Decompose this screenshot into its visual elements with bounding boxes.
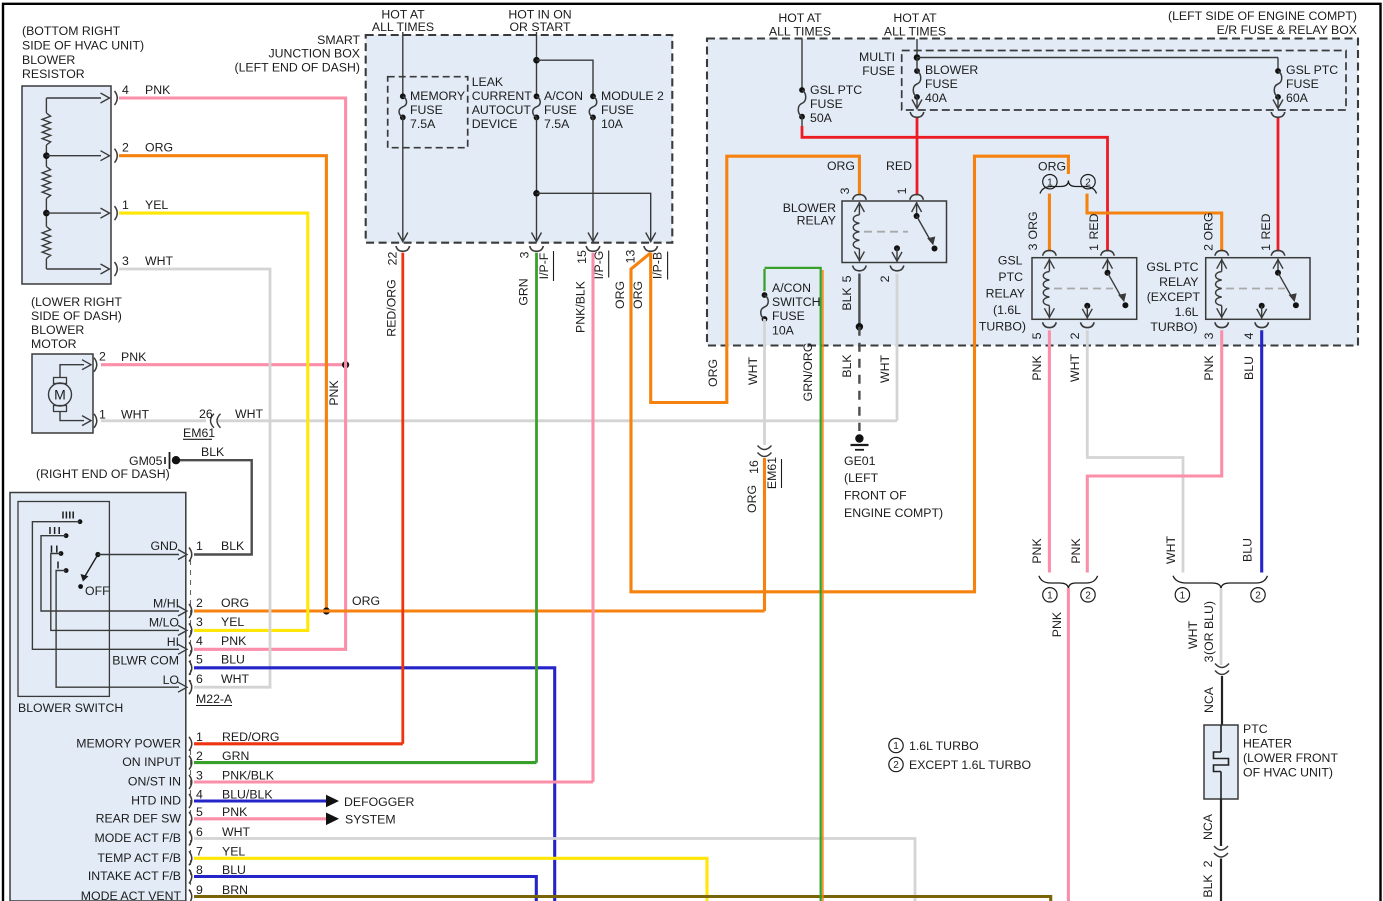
svg-text:HTD IND: HTD IND: [131, 794, 181, 808]
svg-text:1: 1: [196, 730, 203, 744]
svg-text:3: 3: [518, 251, 532, 258]
leak current autocut device box: [388, 77, 468, 148]
svg-text:1: 1: [122, 198, 129, 212]
svg-text:PNK: PNK: [1030, 355, 1044, 381]
svg-text:HI: HI: [167, 635, 179, 649]
svg-text:7.5A: 7.5A: [410, 117, 436, 131]
svg-text:2: 2: [1255, 590, 1261, 601]
svg-text:FUSE: FUSE: [862, 64, 895, 78]
svg-text:6: 6: [196, 825, 203, 839]
org split brace: [1040, 181, 1097, 194]
switch contact IIII: [78, 519, 83, 524]
wire switch I to LO pin: [56, 571, 187, 693]
svg-text:ALL TIMES: ALL TIMES: [769, 25, 831, 39]
relay gsl ptc turbo box: [1032, 258, 1137, 320]
svg-text:BLU: BLU: [221, 653, 245, 667]
svg-text:GRN/ORG: GRN/ORG: [801, 343, 815, 402]
fuse A/CON SWITCH FUSE 10A: [761, 281, 821, 338]
switch pin 7 TEMP ACT F/B: [97, 845, 245, 866]
switch pin 1 MEMORY POWER: [76, 730, 279, 751]
wire blower fuse to exit: [912, 58, 922, 109]
svg-text:FRONT OF: FRONT OF: [844, 489, 907, 503]
svg-text:MULTI: MULTI: [859, 50, 895, 64]
wire acon fuse to exit IPF: [532, 117, 542, 241]
wire PNK motor pin2 to node A: [101, 363, 346, 366]
legend variant 2: [889, 757, 1031, 772]
relay1 coil: [1043, 259, 1054, 319]
svg-text:I/P-B: I/P-B: [651, 252, 665, 279]
svg-text:13: 13: [623, 250, 637, 264]
blower switch inner box: [18, 502, 109, 697]
svg-text:16: 16: [747, 460, 761, 474]
relay blower coil: [853, 202, 864, 262]
label ORG a: [613, 281, 627, 309]
svg-text:BLK: BLK: [840, 354, 854, 378]
svg-text:PNK: PNK: [222, 805, 248, 819]
variant circle 1 pnk: [1043, 588, 1057, 602]
wire ORG sjb IPB branch A: [631, 156, 1068, 592]
wire PNK relay2 pin3 down: [1087, 330, 1221, 572]
svg-text:60A: 60A: [1286, 91, 1309, 105]
wht blu merge brace: [1173, 576, 1267, 589]
svg-text:2: 2: [1068, 332, 1082, 339]
connector dash line lower: [190, 750, 192, 892]
svg-text:DEFOGGER: DEFOGGER: [344, 795, 414, 809]
svg-text:ALL TIMES: ALL TIMES: [884, 25, 946, 39]
svg-text:1: 1: [1087, 244, 1101, 251]
svg-text:3: 3: [1026, 243, 1040, 250]
wire WHT motor pin1 to connector 26: [101, 419, 206, 422]
svg-text:2: 2: [878, 275, 892, 282]
relay blower box: [842, 201, 947, 263]
label hot in on or start: [508, 8, 571, 35]
ground GE01 symbol: [851, 434, 869, 450]
svg-text:1: 1: [1259, 244, 1273, 251]
node resistor tap upper: [43, 152, 50, 159]
svg-text:BLK: BLK: [1201, 874, 1215, 898]
svg-text:BLU: BLU: [222, 863, 246, 877]
blower switch box: [10, 493, 186, 901]
motor M1 symbol: [49, 360, 92, 426]
relay2 pin4 contact: [1257, 303, 1267, 319]
svg-text:BLOWER SWITCH: BLOWER SWITCH: [18, 701, 123, 715]
label WHT pair: [1164, 536, 1178, 564]
svg-text:WHT: WHT: [746, 357, 760, 385]
label hot at all times left: [769, 11, 831, 39]
svg-text:1: 1: [1180, 590, 1186, 601]
svg-text:5: 5: [1030, 332, 1044, 339]
switch common contact: [95, 552, 100, 557]
svg-text:4: 4: [196, 787, 203, 801]
svg-text:40A: 40A: [925, 91, 948, 105]
svg-text:BLOWER: BLOWER: [925, 63, 978, 77]
resistor R element chain: [42, 98, 50, 269]
smart junction box: [366, 35, 673, 243]
svg-text:PNK: PNK: [1202, 355, 1216, 381]
relay2 coil: [1216, 259, 1227, 319]
svg-text:ON INPUT: ON INPUT: [122, 755, 181, 769]
svg-text:15: 15: [575, 250, 589, 264]
svg-text:4: 4: [196, 634, 203, 648]
switch pin 1 GND: [150, 539, 245, 562]
svg-text:SYSTEM: SYSTEM: [345, 812, 396, 826]
wire ORG connector16 to MHI row: [745, 458, 765, 611]
svg-text:LEAK: LEAK: [472, 75, 504, 89]
switch pin 9 MODE ACT VENT: [81, 883, 248, 901]
connector 3 ptc: [1202, 655, 1229, 674]
variant circle 1 left: [1043, 175, 1057, 189]
label ptc heater: [1243, 722, 1338, 780]
pnk merge brace: [1039, 576, 1098, 589]
svg-text:MODULE 2: MODULE 2: [601, 89, 664, 103]
svg-text:CURRENT: CURRENT: [472, 89, 533, 103]
label GRN/ORG: [801, 343, 815, 402]
wire switch III to M/HI pin: [41, 536, 187, 616]
wire memory fuse to exit 22: [398, 117, 408, 241]
wire WHT relay pin2 down: [878, 274, 897, 421]
svg-text:1: 1: [99, 407, 106, 421]
svg-text:SMART: SMART: [317, 33, 360, 47]
svg-text:3: 3: [838, 187, 852, 194]
switch pin 3 ON/ST IN: [128, 768, 275, 789]
svg-text:ORG: ORG: [613, 281, 627, 309]
svg-text:WHT: WHT: [221, 672, 249, 686]
node multi fuse feed: [914, 54, 921, 61]
label ORG branch B: [706, 359, 720, 387]
switch pin 6 LO: [163, 672, 250, 694]
svg-text:2: 2: [196, 596, 203, 610]
svg-text:BLK: BLK: [201, 445, 225, 459]
label ORG relay1 pin3: [1026, 211, 1040, 250]
svg-text:4: 4: [1242, 332, 1256, 339]
svg-text:WHT: WHT: [1068, 354, 1082, 382]
svg-text:5: 5: [840, 275, 854, 282]
svg-text:WHT: WHT: [235, 407, 263, 421]
svg-text:2: 2: [196, 749, 203, 763]
svg-text:TEMP ACT F/B: TEMP ACT F/B: [97, 851, 181, 865]
blower motor box: [32, 354, 93, 433]
svg-text:FUSE: FUSE: [1286, 77, 1319, 91]
blower resistor box: [22, 86, 111, 284]
wire WHT merged down: [1186, 588, 1221, 665]
wire PNK relay1 pin5 down: [1030, 330, 1049, 572]
svg-text:1.6L: 1.6L: [1175, 305, 1199, 319]
multi fuse exit connector a: [910, 112, 924, 117]
svg-text:2: 2: [1085, 590, 1091, 601]
svg-text:PNK: PNK: [1069, 538, 1083, 564]
svg-text:HOT AT: HOT AT: [778, 11, 822, 25]
svg-text:DEVICE: DEVICE: [472, 117, 518, 131]
svg-text:INTAKE ACT F/B: INTAKE ACT F/B: [88, 869, 181, 883]
svg-text:1: 1: [893, 741, 899, 752]
svg-text:BLK: BLK: [221, 539, 245, 553]
relay blower cup pin5: [840, 266, 866, 283]
relay2 cup pin3: [1202, 322, 1229, 339]
wire hot-in-on into box: [536, 32, 538, 96]
svg-text:GSL PTC: GSL PTC: [1286, 63, 1338, 77]
svg-text:(LEFT SIDE OF ENGINE COMPT): (LEFT SIDE OF ENGINE COMPT): [1168, 9, 1357, 23]
ER fuse and relay box: [707, 39, 1358, 346]
fuse GSL PTC FUSE 60A: [1274, 58, 1338, 106]
resistor pin 4: [46, 83, 171, 105]
svg-text:2: 2: [99, 350, 106, 364]
svg-text:1: 1: [895, 187, 909, 194]
svg-text:26: 26: [199, 407, 213, 421]
svg-text:ORG: ORG: [706, 359, 720, 387]
svg-text:GE01: GE01: [844, 454, 876, 468]
svg-text:7: 7: [196, 845, 203, 859]
svg-text:WHT: WHT: [121, 407, 149, 421]
wire switch common to GND pin: [98, 550, 187, 560]
svg-text:PNK: PNK: [121, 350, 147, 364]
wire GRN/ORG acon feed: [765, 268, 823, 901]
svg-text:SWITCH: SWITCH: [772, 295, 821, 309]
wire ORG variant2 to relay2 pin2: [1087, 194, 1222, 252]
svg-text:PNK: PNK: [327, 380, 341, 406]
label leak current autocut device: [472, 75, 533, 131]
svg-text:(1.6L: (1.6L: [993, 303, 1021, 317]
svg-text:MEMORY: MEMORY: [410, 89, 465, 103]
relay1 switch arm: [1103, 259, 1129, 309]
label gsl ptc relay turbo: [979, 253, 1026, 333]
svg-text:TURBO): TURBO): [1150, 320, 1197, 334]
relay2 dashed link: [1226, 288, 1285, 290]
label GRN: [517, 278, 531, 305]
svg-text:(RIGHT END OF DASH): (RIGHT END OF DASH): [36, 467, 170, 481]
svg-text:7.5A: 7.5A: [544, 117, 570, 131]
svg-text:FUSE: FUSE: [925, 77, 958, 91]
wire BLU INTAKE ACT F/B: [194, 877, 536, 901]
svg-text:3: 3: [1202, 332, 1216, 339]
relay2 switch arm: [1273, 259, 1299, 309]
svg-text:FUSE: FUSE: [772, 309, 805, 323]
wire RED blower fuse to blower relay: [916, 118, 919, 196]
switch contact III: [64, 533, 69, 538]
svg-text:GSL: GSL: [998, 253, 1023, 267]
wire RED 50a fuse to relay1 pin1: [802, 117, 1108, 252]
relay1 dashed link: [1054, 288, 1113, 290]
switch pin 5 REAR DEF SW: [96, 805, 248, 826]
svg-text:OFF: OFF: [85, 584, 110, 598]
svg-text:2: 2: [1202, 244, 1216, 251]
svg-text:BRN: BRN: [222, 883, 248, 897]
switch pin 4 HTD IND: [131, 787, 273, 808]
node ORG junction M/HI: [323, 607, 330, 614]
label PNK/BLK: [574, 280, 588, 333]
label RED relay2 pin1: [1259, 213, 1273, 251]
node resistor tap lower: [43, 210, 50, 217]
wire multi fuse bus: [917, 57, 1278, 59]
svg-text:(BOTTOM RIGHT: (BOTTOM RIGHT: [22, 24, 121, 38]
wire WHT connector 26 to blower relay pin 2: [218, 419, 897, 422]
svg-text:REAR DEF SW: REAR DEF SW: [96, 811, 182, 825]
svg-text:PNK: PNK: [221, 634, 247, 648]
relay blower cup pin2: [878, 266, 904, 283]
svg-text:TURBO): TURBO): [979, 319, 1026, 333]
wire NCA below heater: [1201, 799, 1221, 846]
relay2 cup pin1: [1271, 250, 1285, 255]
svg-text:MODE ACT VENT: MODE ACT VENT: [81, 889, 182, 901]
relay gsl ptc except box: [1206, 258, 1310, 320]
wire WHT resistor pin3 to switch LO: [119, 269, 270, 687]
svg-text:1: 1: [1047, 590, 1053, 601]
label hot at all times right: [884, 11, 946, 39]
wire RED/ORG MEMORY POWER: [194, 742, 403, 745]
svg-text:A/CON: A/CON: [544, 89, 583, 103]
wire BLK dashed to GE01: [840, 327, 859, 431]
wire branch to module2 fuse: [537, 60, 594, 96]
svg-text:ORG: ORG: [827, 159, 855, 173]
svg-text:3: 3: [196, 768, 203, 782]
switch pin 2 M/HI: [153, 596, 249, 618]
relay1 pin2 contact: [1082, 303, 1092, 319]
svg-text:FUSE: FUSE: [410, 103, 443, 117]
svg-text:SIDE OF HVAC UNIT): SIDE OF HVAC UNIT): [22, 39, 144, 53]
svg-text:OF HVAC UNIT): OF HVAC UNIT): [1243, 766, 1333, 780]
svg-text:PTC: PTC: [998, 270, 1023, 284]
wire ORG switch M/HI row: [194, 594, 765, 611]
connector 16 EM61: [747, 446, 782, 490]
svg-text:ENGINE COMPT): ENGINE COMPT): [844, 506, 943, 520]
relay2 cup pin4: [1242, 322, 1269, 339]
label smart junction box: [235, 33, 361, 75]
svg-text:FUSE: FUSE: [810, 97, 843, 111]
switch position marks III: [50, 527, 59, 534]
wire GRN sjb IPF down: [535, 253, 538, 763]
svg-text:RED/ORG: RED/ORG: [222, 730, 279, 744]
wire module2 fuse to exit IPG: [588, 117, 598, 241]
node sjb branch lower: [533, 190, 540, 197]
relay1 cup pin2: [1068, 322, 1094, 339]
label blower resistor location: [22, 24, 144, 81]
wire BLU/BLK HTD IND: [194, 799, 326, 802]
svg-text:EM61: EM61: [183, 426, 215, 440]
wire WHT relay1 pin2 down: [1068, 330, 1183, 572]
svg-text:M22-A: M22-A: [196, 692, 233, 706]
wire PNK/BLK ON/ST IN: [194, 780, 593, 783]
resistor pin 2: [46, 141, 173, 163]
svg-text:1: 1: [196, 539, 203, 553]
svg-text:2: 2: [893, 760, 899, 771]
svg-text:GRN: GRN: [517, 278, 531, 305]
switch rotor arm to OFF: [81, 555, 98, 582]
sjb exit connector 22: [385, 246, 409, 265]
wire switch II to M/LO pin: [51, 554, 187, 636]
relay blower dashed link: [864, 231, 908, 233]
wire YEL resistor pin1 to switch M/LO: [119, 213, 308, 630]
svg-text:EM61: EM61: [765, 457, 779, 489]
relay1 cup pin5: [1030, 322, 1056, 339]
wire switch IIII to HI pin: [32, 522, 187, 655]
wire ORG sjb IPB branch B: [651, 156, 860, 402]
svg-text:A/CON: A/CON: [772, 281, 811, 295]
resistor pin 3: [46, 254, 173, 276]
svg-text:10A: 10A: [772, 324, 795, 338]
label ORG b: [631, 281, 645, 309]
label ORG relay coil feed: [827, 159, 855, 173]
ground GM05: [129, 452, 180, 469]
switch pin 8 INTAKE ACT F/B: [88, 863, 246, 884]
svg-text:10A: 10A: [601, 117, 624, 131]
wire YEL TEMP ACT F/B: [194, 858, 707, 901]
svg-text:YEL: YEL: [221, 615, 244, 629]
svg-text:(LOWER FRONT: (LOWER FRONT: [1243, 751, 1338, 765]
relay blower switch arm: [912, 202, 938, 252]
svg-text:BLWR COM: BLWR COM: [112, 654, 179, 668]
svg-text:RED/ORG: RED/ORG: [385, 279, 399, 336]
wire BRN MODE ACT VENT: [194, 897, 1051, 901]
svg-text:3: 3: [1202, 655, 1216, 662]
label connector M22-A: [196, 692, 233, 706]
multi fuse exit connector b: [1271, 112, 1285, 117]
svg-text:3: 3: [122, 254, 129, 268]
svg-text:GND: GND: [150, 539, 177, 553]
relay blower cup pin1: [895, 187, 923, 199]
label BLU pair: [1241, 538, 1255, 562]
connector 26 EM61: [183, 407, 263, 440]
switch position marks IIII: [63, 512, 73, 519]
svg-text:WHT: WHT: [1164, 536, 1178, 564]
svg-text:GM05: GM05: [129, 454, 163, 468]
svg-text:5: 5: [196, 805, 203, 819]
node blk junction: [856, 323, 863, 330]
multi fuse box: [902, 51, 1346, 111]
label multi fuse: [859, 50, 895, 78]
relay1 cup pin1: [1101, 250, 1115, 255]
label PNK pair right: [1069, 538, 1083, 564]
svg-text:PNK: PNK: [1050, 611, 1064, 637]
svg-text:NCA: NCA: [1201, 813, 1215, 840]
wire branch to exit IPB: [537, 193, 656, 241]
node A pnk junction: [342, 361, 349, 368]
connector M22-A dash line: [190, 560, 192, 684]
svg-text:BLK: BLK: [840, 287, 854, 311]
node sjb branch upper: [533, 57, 540, 64]
svg-text:(EXCEPT: (EXCEPT: [1147, 290, 1201, 304]
variant circle 1 wht: [1175, 588, 1189, 602]
wire BLK ptc to bottom: [1201, 859, 1221, 901]
motor pin 1: [94, 407, 149, 428]
svg-text:BLU/BLK: BLU/BLK: [222, 787, 273, 801]
wire WHT MODE ACT F/B: [194, 839, 915, 901]
svg-text:5: 5: [196, 653, 203, 667]
svg-text:OR START: OR START: [509, 20, 571, 34]
wire hot-at-all-times into memory fuse: [402, 32, 404, 96]
svg-text:FUSE: FUSE: [544, 103, 577, 117]
wire ORG variant1 to relay1 pin3: [1048, 194, 1051, 252]
svg-text:RELAY: RELAY: [797, 214, 836, 228]
svg-text:WHT: WHT: [222, 825, 250, 839]
sjb exit connector I/P-F: [518, 246, 554, 281]
legend variant 1: [889, 738, 979, 753]
label ORG relay2 pin2: [1202, 212, 1216, 250]
svg-text:RED: RED: [1259, 213, 1273, 239]
svg-text:HEATER: HEATER: [1243, 737, 1292, 751]
wire GRN ON INPUT: [194, 761, 537, 764]
svg-text:ORG: ORG: [631, 281, 645, 309]
relay2 cup pin2: [1215, 250, 1229, 255]
svg-text:MODE ACT F/B: MODE ACT F/B: [94, 831, 181, 845]
svg-text:PTC: PTC: [1243, 722, 1268, 736]
fuse BLOWER FUSE 40A: [913, 63, 978, 105]
svg-text:50A: 50A: [810, 111, 833, 125]
svg-text:2: 2: [122, 141, 129, 155]
arrow to defogger: [326, 795, 414, 809]
label engine compartment box: [1168, 9, 1357, 37]
label blower relay: [783, 201, 836, 228]
svg-text:ORG: ORG: [745, 485, 759, 513]
svg-text:EXCEPT 1.6L TURBO: EXCEPT 1.6L TURBO: [909, 758, 1031, 772]
